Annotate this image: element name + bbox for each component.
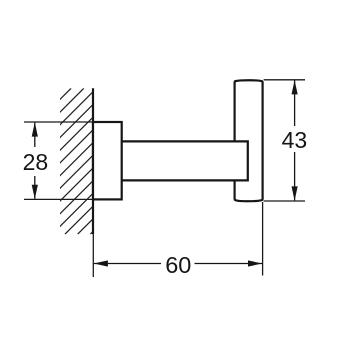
mounting plate (93, 122, 122, 199)
wall edge (92, 88, 94, 234)
svg-text:43: 43 (282, 127, 308, 153)
dimension 43 line and arrows (292, 80, 298, 200)
dimension 28 line and arrows (32, 122, 38, 199)
svg-text:60: 60 (165, 252, 191, 278)
dimension 60 line and arrows (94, 260, 263, 266)
wall hatch (0, 88, 237, 234)
dimension 43 extension lines (264, 80, 305, 201)
hook end bar (235, 80, 263, 201)
hook arm (122, 141, 248, 180)
dimension 28 extension lines (24, 122, 93, 199)
dimension 60 extension lines (93, 202, 262, 277)
svg-text:28: 28 (23, 149, 49, 175)
